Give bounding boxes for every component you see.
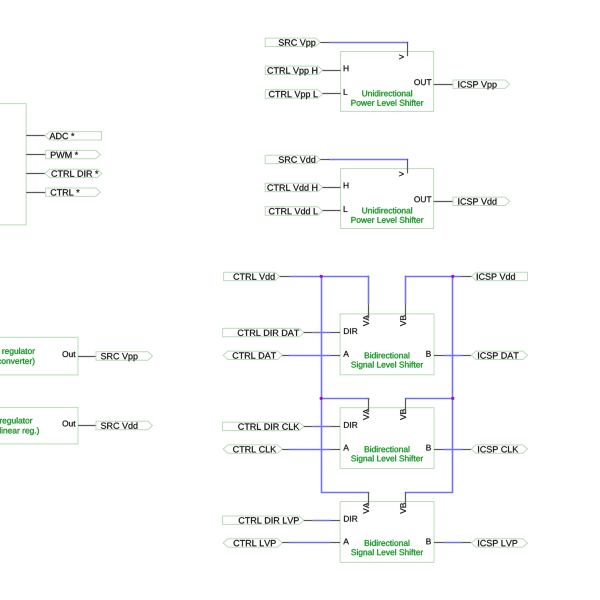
text Power Level Shifter — [351, 217, 423, 223]
wire left Vdd rail — [321, 276, 323, 493]
text Bidirectional CLK — [365, 446, 410, 452]
pin name H — [344, 65, 349, 71]
pin stub > top — [407, 159, 409, 173]
wire CTRL LVP blue — [289, 542, 330, 544]
wire VB1 vertical blue — [405, 276, 407, 305]
wire ICSP DAT gray stub — [463, 355, 472, 357]
pin name B LVP — [426, 539, 431, 545]
text Signal Level Shifter DAT — [351, 361, 423, 369]
hier label CTRL DIR DAT — [223, 328, 304, 336]
hier label ICSP Vdd — [453, 197, 510, 205]
pin name VB CLK — [400, 409, 406, 420]
pin name B DAT — [426, 351, 431, 357]
text Signal Level Shifter CLK — [351, 455, 423, 463]
junction CTRL Vdd left rail — [320, 275, 323, 278]
pin name > — [399, 55, 404, 60]
pin stub A CLK — [330, 449, 340, 451]
pin stub DIR CLK — [330, 426, 340, 428]
wire CTRL LVP gray stub — [282, 542, 289, 544]
hier label CTRL DIR LVP — [223, 516, 304, 524]
wire ICSP Vdd horizontal to VB1 — [405, 276, 462, 278]
hier label SRC Vdd — [265, 155, 320, 163]
text Vpp regulator — [0, 348, 35, 356]
wire CTRL DAT blue — [289, 355, 330, 357]
hier label CTRL DIR * — [45, 169, 102, 177]
text Power Level Shifter — [351, 100, 423, 106]
pin stub CTRL — [26, 192, 46, 194]
pin stub DIR DAT — [330, 332, 340, 334]
wire OUT to ICSP Vpp — [434, 84, 453, 86]
wire reg2 Out to SRC Vdd — [78, 425, 96, 427]
text Unidirectional — [362, 207, 412, 213]
wire reg1 Out to SRC Vpp — [78, 356, 96, 358]
wire row3 right jog — [405, 492, 453, 494]
hier label CTRL Vdd H — [265, 183, 322, 191]
sheet Vdd regulator (clipped) — [0, 407, 78, 444]
wire SRC Vdd gray stub — [320, 159, 329, 161]
sheet Unidirectional Power Level Shifter Vdd — [341, 169, 434, 229]
hier label SRC Vdd bottom — [96, 421, 153, 429]
pin name Out reg1 — [63, 351, 76, 357]
sheet MCU (clipped at left edge) — [0, 104, 26, 225]
pin stub A LVP — [330, 542, 340, 544]
hier label CTRL DIR CLK — [223, 422, 304, 430]
pin name L — [344, 89, 348, 95]
pin stub A DAT — [330, 355, 340, 357]
wire row2 right jog — [405, 398, 453, 400]
wire CTRL Vdd L to pin L — [323, 210, 341, 212]
pin stub B DAT — [434, 355, 444, 357]
pin stub B CLK — [434, 449, 444, 451]
pin stub VB3 — [405, 492, 407, 506]
pin name OUT — [414, 79, 431, 85]
sheet Bidirectional Signal Level Shifter CLK — [340, 408, 434, 469]
pin stub VA2 — [368, 398, 370, 412]
text Bidirectional LVP — [365, 540, 410, 546]
text (boost converter) — [0, 358, 35, 366]
wire CTRL DIR LVP blue — [313, 520, 330, 522]
sheet Bidirectional Signal Level Shifter DAT — [340, 314, 434, 375]
pin stub ADC — [26, 135, 45, 137]
pin name VB DAT — [400, 315, 406, 326]
wire CTRL DIR DAT gray stub — [304, 332, 313, 334]
wire CTRL CLK gray stub — [282, 449, 289, 451]
hier label PWM * — [46, 150, 101, 158]
wire ICSP LVP gray stub — [463, 542, 472, 544]
wire row2 left jog — [321, 398, 369, 400]
pin name DIR DAT — [344, 328, 357, 334]
pin stub VB2 — [405, 398, 407, 412]
pin name H — [344, 183, 349, 189]
pin stub VA3 — [368, 492, 370, 506]
wire CTRL Vpp L to pin L — [323, 93, 341, 95]
pin name A LVP — [343, 539, 349, 545]
wire CTRL DAT gray stub — [282, 355, 289, 357]
sheet Bidirectional Signal Level Shifter LVP — [340, 502, 434, 563]
pin stub CTRL DIR — [26, 173, 45, 175]
text (linear reg.) — [0, 427, 39, 435]
wire right Vdd rail — [452, 276, 454, 493]
wire CTRL Vdd gray stub — [280, 276, 290, 278]
pin name VA CLK — [363, 409, 369, 420]
wire B DAT blue — [444, 355, 463, 357]
pin name B CLK — [426, 445, 431, 451]
pin name DIR LVP — [344, 516, 357, 522]
pin name DIR CLK — [344, 422, 357, 428]
hier label CTRL Vpp H — [265, 66, 322, 75]
wire B CLK blue — [444, 449, 463, 451]
text Unidirectional — [362, 90, 412, 96]
wire CTRL DIR LVP gray stub — [304, 520, 313, 522]
wire row3 left jog — [321, 492, 369, 494]
wire CTRL DIR CLK blue — [313, 426, 330, 428]
hier label ICSP DAT — [471, 351, 527, 359]
hier label CTRL LVP — [223, 539, 282, 547]
pin name VA LVP — [363, 503, 369, 514]
hier label SRC Vpp — [265, 38, 320, 47]
wire CTRL CLK blue — [289, 449, 330, 451]
pin name > — [399, 172, 404, 177]
pin name A CLK — [343, 445, 349, 451]
pin stub PWM — [26, 154, 46, 156]
wire CTRL DIR CLK gray stub — [304, 426, 313, 428]
pin stub VB1 — [405, 304, 407, 318]
pin stub DIR LVP — [330, 520, 340, 522]
wire ICSP CLK gray stub — [463, 449, 472, 451]
sheet Vpp regulator (clipped) — [0, 337, 78, 375]
pin name VB LVP — [400, 503, 406, 514]
text Vdd regulator — [0, 417, 32, 425]
pin stub > top — [407, 42, 409, 56]
hier label CTRL CLK — [223, 445, 282, 453]
wire ICSP Vdd gray stub — [462, 276, 472, 278]
wire CTRL DIR DAT blue — [313, 332, 330, 334]
wire SRC Vpp horizontal — [330, 42, 409, 44]
hier label ICSP Vdd bidir — [472, 272, 528, 280]
wire SRC Vpp gray stub — [320, 42, 329, 44]
pin stub B LVP — [434, 542, 444, 544]
hier label ICSP CLK — [471, 445, 527, 453]
pin name A DAT — [343, 351, 349, 357]
hier label ICSP LVP — [471, 539, 527, 547]
pin name L — [344, 206, 348, 212]
text Bidirectional DAT — [365, 352, 410, 358]
pin name OUT — [414, 196, 431, 202]
hier label CTRL Vdd — [224, 272, 280, 280]
hier label CTRL * — [46, 188, 101, 196]
wire SRC Vdd horizontal — [330, 159, 409, 161]
wire B LVP blue — [444, 542, 463, 544]
wire OUT to ICSP Vdd — [434, 201, 453, 203]
hier label SRC Vpp bottom — [96, 352, 153, 361]
hier label ICSP Vpp — [453, 80, 510, 89]
wire CTRL Vdd H to pin H — [323, 187, 341, 189]
pin name Out reg2 — [63, 421, 76, 427]
hier label ADC * — [45, 132, 102, 140]
junction left rail row2 — [320, 397, 323, 400]
pin name VA DAT — [363, 315, 369, 326]
sheet Unidirectional Power Level Shifter Vpp — [341, 52, 434, 112]
hier label CTRL Vpp L — [265, 90, 322, 99]
text Signal Level Shifter LVP — [351, 549, 423, 557]
pin stub VA1 — [368, 304, 370, 318]
junction right rail row2 — [451, 397, 454, 400]
wire CTRL Vdd horizontal to VA1 — [290, 276, 370, 278]
wire VA1 vertical blue — [368, 276, 370, 305]
junction ICSP Vdd right rail — [451, 275, 454, 278]
hier label CTRL DAT — [223, 351, 282, 359]
hier label CTRL Vdd L — [265, 207, 322, 215]
wire CTRL Vpp H to pin H — [323, 70, 341, 72]
